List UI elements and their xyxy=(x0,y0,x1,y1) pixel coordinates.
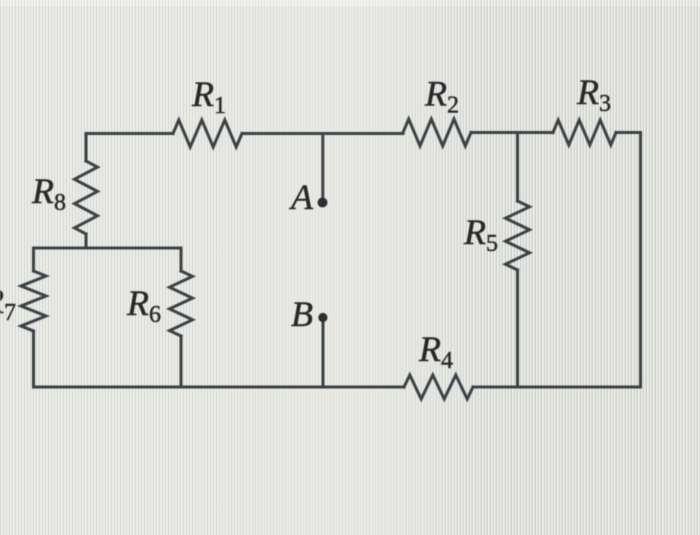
svg-text:R6: R6 xyxy=(126,283,161,328)
wire middle-left horizontal xyxy=(34,247,182,250)
resistor R6 xyxy=(170,271,193,336)
svg-text:R1: R1 xyxy=(191,74,226,119)
resistor R1 xyxy=(173,120,242,147)
wire right vertical xyxy=(639,133,642,388)
wire R8 lower lead xyxy=(85,234,88,248)
wire top-left segment xyxy=(86,132,173,135)
wire top middle segment xyxy=(242,132,403,135)
wire left vertical upper lead xyxy=(85,134,88,162)
resistor R4 xyxy=(404,375,473,399)
resistor R3 xyxy=(553,120,616,145)
wire R7 lower lead xyxy=(32,331,35,387)
wire node A stub xyxy=(321,134,324,199)
wire bottom right segment xyxy=(473,386,640,389)
resistor R5 xyxy=(506,201,530,270)
resistor R8 xyxy=(75,161,98,234)
resistor R7 xyxy=(21,271,46,331)
wire R6 lower lead xyxy=(180,336,183,387)
wire node B stub xyxy=(322,322,325,387)
node B dot xyxy=(318,313,327,322)
svg-text:R2: R2 xyxy=(424,74,459,119)
svg-text:R7: R7 xyxy=(0,281,16,326)
wire R5 lower lead xyxy=(516,270,519,387)
svg-text:R8: R8 xyxy=(31,171,66,216)
wire R3 to right corner xyxy=(616,131,640,134)
wire bottom left segment xyxy=(34,386,405,389)
svg-text:A: A xyxy=(289,177,314,217)
node A dot xyxy=(318,198,328,208)
wire R7 upper lead xyxy=(32,248,35,271)
svg-text:B: B xyxy=(291,294,313,334)
svg-text:R4: R4 xyxy=(418,329,453,374)
resistor R2 xyxy=(403,119,471,146)
wire R6 upper lead xyxy=(180,248,183,271)
svg-text:R5: R5 xyxy=(463,212,498,257)
wire R5 upper lead xyxy=(516,133,519,202)
wire between R2 and R3 xyxy=(471,131,553,134)
svg-text:R3: R3 xyxy=(576,72,611,117)
